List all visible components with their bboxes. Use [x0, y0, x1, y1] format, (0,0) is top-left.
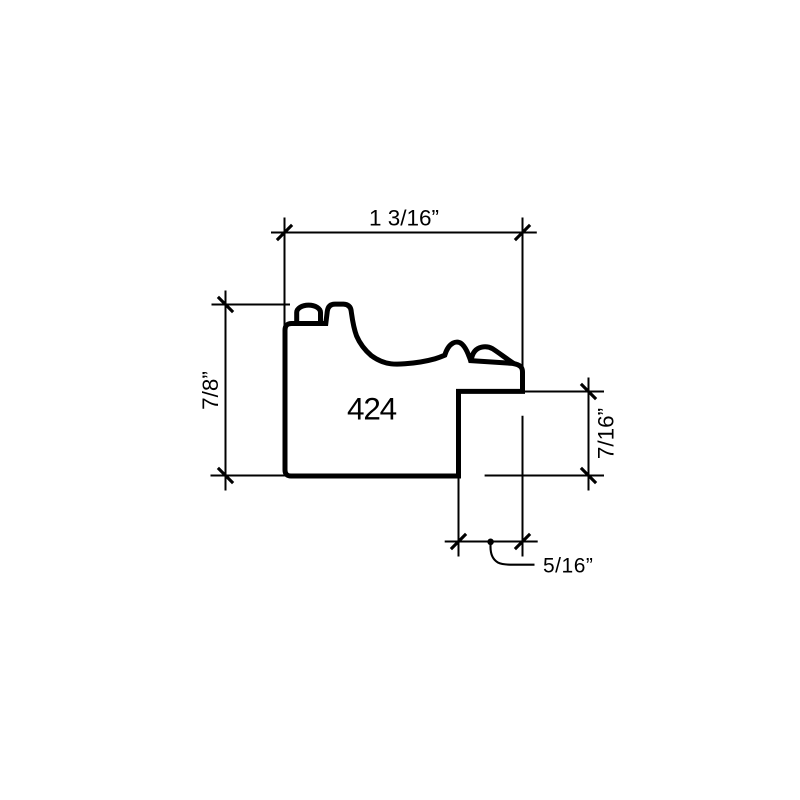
svg-text:1 3/16”: 1 3/16”: [369, 206, 439, 231]
svg-text:424: 424: [347, 391, 397, 427]
svg-text:7/8”: 7/8”: [198, 371, 223, 410]
svg-text:5/16”: 5/16”: [543, 554, 593, 577]
svg-text:7/16”: 7/16”: [594, 408, 619, 459]
